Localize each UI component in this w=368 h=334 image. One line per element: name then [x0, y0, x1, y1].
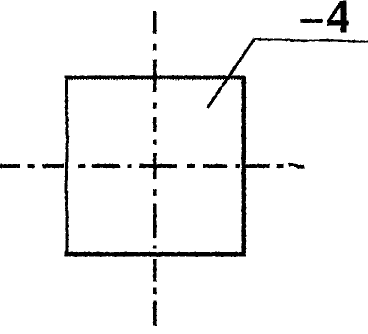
square outline: right edge: [241, 76, 245, 257]
vertical centerline (dash-dot), x=154.8: [153, 11, 157, 326]
label minus sign of "-4": [300, 19, 322, 23]
square outline: top edge: [65, 76, 246, 79]
leader line diagonal segment: [207, 39, 254, 108]
square outline: left edge: [66, 76, 67, 256]
leader line horizontal tail (wavy): [254, 39, 368, 42]
horizontal centerline (dash-dot), y=165.6: [0, 165, 304, 167]
square outline: bottom edge: [65, 252, 246, 256]
label digit 4: [327, 1, 349, 33]
square outline: top edge halftone fringe: [66, 78, 244, 80]
